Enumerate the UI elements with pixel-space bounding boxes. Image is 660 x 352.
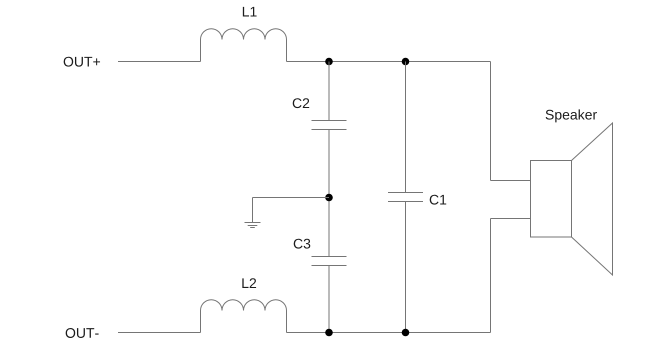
capacitor C3 [312, 257, 347, 266]
ground [245, 198, 261, 228]
label C3 [294, 239, 311, 249]
wire C1 bottom [405, 202, 407, 333]
capacitor C2 [312, 121, 347, 130]
wire speaker top terminal [491, 180, 531, 182]
wire C1 top [405, 62, 407, 193]
speaker cone [572, 123, 613, 275]
wire ground branch [253, 197, 330, 199]
node junction bottom-left [325, 329, 333, 337]
wire C2 to C3 [328, 130, 330, 257]
inductor L1 [201, 29, 287, 62]
wire right column top [490, 62, 492, 181]
wire top rail [287, 61, 491, 63]
wire OUT- lead [118, 332, 201, 334]
wire bottom rail [287, 332, 491, 334]
label L1 [243, 7, 257, 17]
label C2 [293, 98, 309, 108]
inductor L2 [201, 300, 287, 333]
label OUT+ [64, 57, 100, 67]
label Speaker [546, 109, 597, 122]
capacitor C1 [388, 193, 423, 202]
speaker body [531, 161, 572, 238]
node junction top-right [402, 58, 410, 66]
wire top rail to C2 [328, 62, 330, 121]
label OUT- [66, 328, 99, 338]
wire OUT+ lead [118, 61, 201, 63]
node junction bottom-right [402, 329, 410, 337]
label C1 [430, 195, 447, 205]
node junction top-left [325, 58, 333, 66]
wire right column bottom [490, 219, 492, 333]
wire C3 to bottom rail [328, 266, 330, 333]
node junction middle ground node [325, 194, 333, 202]
label L2 [242, 278, 256, 288]
wire speaker bottom terminal [491, 218, 531, 220]
